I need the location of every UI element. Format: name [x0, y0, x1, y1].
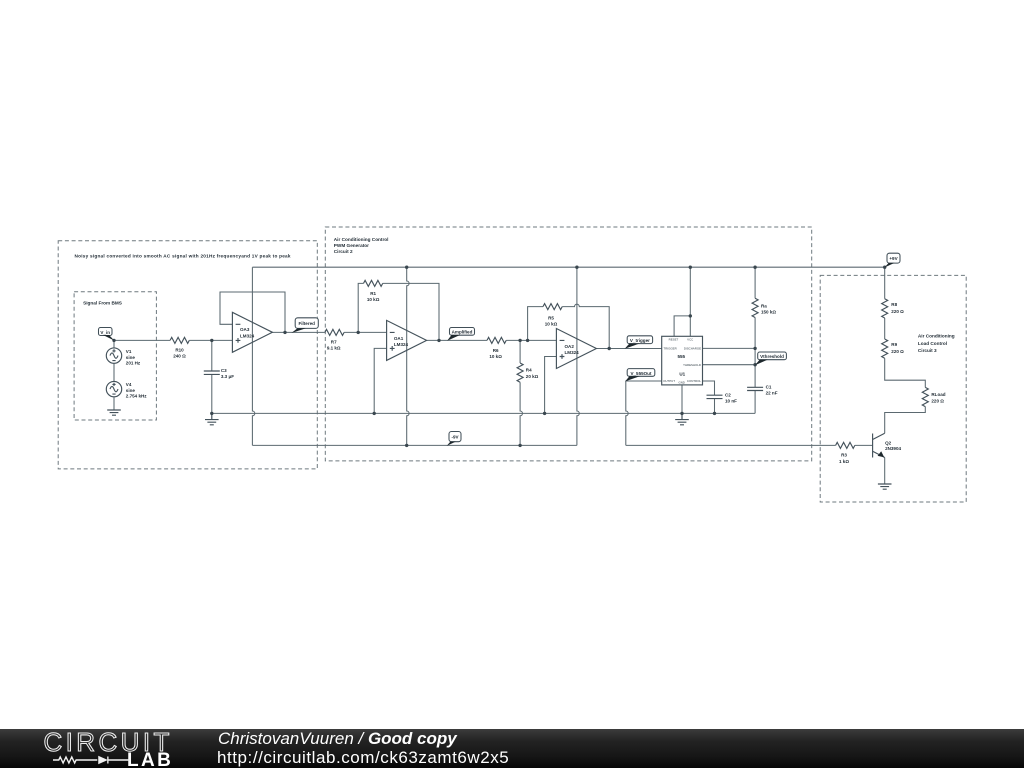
- resistor R9: [882, 339, 904, 358]
- svg-text:C1: C1: [766, 384, 772, 389]
- logo resistor-diode glyph: [53, 755, 130, 765]
- resistor R4: [517, 363, 539, 382]
- ground under 555: [675, 413, 689, 424]
- svg-text:Q2: Q2: [885, 440, 892, 445]
- node label V_trigger: [625, 336, 653, 349]
- node label Amplified: [447, 328, 474, 341]
- ground under Q2: [878, 484, 892, 489]
- svg-text:201 Hz: 201 Hz: [126, 361, 141, 366]
- voltage source V4 sine 2.754 kHz: [106, 381, 147, 398]
- wire OA1 output to R6 to OA2 minus: [427, 339, 557, 341]
- transistor Q2 2N3904: [873, 433, 902, 457]
- wire 555 reset loop: [674, 316, 690, 336]
- svg-text:Circuit 2: Circuit 2: [334, 249, 353, 254]
- svg-text:R3: R3: [841, 453, 847, 458]
- wire +9V drop to R8 R9: [885, 267, 926, 433]
- svg-text:Air Conditioning: Air Conditioning: [918, 334, 955, 339]
- wire 555 control to C2: [703, 381, 715, 395]
- svg-text:VCC: VCC: [687, 337, 693, 341]
- wire 555 output rail to R3 to Q2 base: [626, 444, 873, 446]
- annotation box circuit 1: [58, 241, 317, 469]
- svg-text:220 Ω: 220 Ω: [891, 349, 904, 354]
- wire R1 feedback loop: [358, 283, 439, 340]
- svg-text:R5: R5: [548, 315, 554, 320]
- wire ground rail: [212, 412, 755, 414]
- wire OA3 power rail drop: [252, 267, 254, 445]
- svg-text:V_in: V_in: [100, 330, 110, 335]
- resistor R10: [170, 337, 189, 358]
- svg-text:RLoad: RLoad: [931, 392, 945, 397]
- wire OA3 feedback loop: [220, 292, 285, 332]
- ground under C3: [205, 413, 219, 424]
- ground under V4: [107, 410, 121, 415]
- voltage source V1 sine 201 Hz: [106, 348, 141, 366]
- node label -9V: [447, 432, 461, 446]
- wire source chain V1 V4: [113, 340, 115, 410]
- svg-text:LM324: LM324: [565, 350, 580, 355]
- svg-text:sine: sine: [126, 355, 136, 360]
- wire OA1 plus input to ground rail: [374, 348, 386, 413]
- svg-text:GND: GND: [678, 381, 684, 385]
- wire OA2 plus input to ground rail: [545, 357, 557, 414]
- svg-text:V_trigger: V_trigger: [630, 338, 650, 343]
- node label Vthreshold: [755, 352, 787, 365]
- capacitor C2: [707, 393, 738, 404]
- svg-text:U1: U1: [679, 372, 685, 377]
- svg-text:Air Conditioning Control: Air Conditioning Control: [334, 237, 389, 242]
- svg-text:R10: R10: [175, 348, 184, 353]
- svg-text:+9V: +9V: [889, 256, 897, 261]
- node label +9V: [884, 253, 900, 267]
- wire 555 threshold: [703, 364, 756, 366]
- op-amp OA1 LM324: [387, 320, 427, 360]
- wire +9V top rail: [252, 266, 884, 268]
- svg-text:150 kΩ: 150 kΩ: [761, 310, 776, 315]
- op-amp OA3 LM324: [232, 312, 272, 352]
- wire Ra chain and C1 branch: [754, 267, 756, 413]
- svg-text:3.3 μF: 3.3 μF: [221, 374, 234, 379]
- resistor R7: [325, 329, 344, 350]
- svg-text:R4: R4: [526, 367, 532, 372]
- svg-text:Filtered: Filtered: [298, 321, 315, 326]
- resistor R6: [487, 337, 506, 359]
- svg-text:V4: V4: [126, 382, 132, 387]
- svg-text:R9: R9: [891, 342, 897, 347]
- wire OA3 output to R7 to OA1 minus: [272, 331, 386, 333]
- svg-text:1 kΩ: 1 kΩ: [839, 459, 849, 464]
- resistor R3: [836, 442, 855, 463]
- svg-text:Ra: Ra: [761, 304, 767, 309]
- svg-text:R6: R6: [493, 348, 499, 353]
- wire 555 gnd pin: [681, 385, 683, 414]
- resistor R1: [364, 280, 383, 302]
- svg-text:2N3904: 2N3904: [885, 446, 901, 451]
- wire C2 bottom to ground rail: [714, 399, 716, 414]
- wire OA2 output to 555 trigger: [596, 348, 661, 350]
- svg-text:OA2: OA2: [565, 344, 575, 349]
- svg-text:THRESHOLD: THRESHOLD: [683, 363, 701, 367]
- svg-text:-9V: -9V: [451, 435, 458, 440]
- resistor R5: [543, 304, 562, 327]
- capacitor C1: [747, 384, 778, 395]
- svg-text:240 Ω: 240 Ω: [173, 354, 186, 359]
- svg-text:LM324: LM324: [394, 342, 409, 347]
- svg-text:2.754 kHz: 2.754 kHz: [126, 394, 147, 399]
- svg-text:Amplified: Amplified: [452, 330, 473, 335]
- svg-text:R8: R8: [891, 302, 897, 307]
- resistor RLoad: [922, 387, 945, 406]
- svg-text:Circuit 3: Circuit 3: [918, 348, 937, 353]
- op-amp OA2 LM324: [556, 329, 596, 369]
- svg-text:Signal From BMS: Signal From BMS: [83, 300, 122, 305]
- svg-text:OA1: OA1: [394, 336, 404, 341]
- svg-text:10 kΩ: 10 kΩ: [489, 354, 502, 359]
- junction dots: [112, 266, 886, 448]
- svg-text:DISCHARGE: DISCHARGE: [684, 346, 701, 350]
- svg-text:LM324: LM324: [240, 333, 255, 338]
- node label V_in: [99, 328, 115, 341]
- svg-text:Load Control: Load Control: [918, 341, 947, 346]
- svg-text:RESET: RESET: [669, 337, 679, 341]
- node label V_555Out: [625, 369, 655, 382]
- resistor Ra: [752, 298, 776, 317]
- svg-text:V1: V1: [126, 349, 132, 354]
- svg-text:9.1 kΩ: 9.1 kΩ: [327, 346, 341, 351]
- svg-text:10 nF: 10 nF: [725, 399, 737, 404]
- wire Q2 emitter to ground: [884, 458, 886, 484]
- svg-text:C2: C2: [725, 393, 731, 398]
- wire 555 vcc to top rail: [689, 267, 691, 336]
- svg-text:OA3: OA3: [240, 327, 250, 332]
- svg-text:10 kΩ: 10 kΩ: [367, 297, 380, 302]
- resistor R8: [882, 299, 904, 318]
- svg-text:Noisy signal converted into sm: Noisy signal converted into smooth AC si…: [75, 254, 291, 259]
- svg-text:Vthreshold: Vthreshold: [760, 354, 784, 359]
- wire -9V rail: [252, 444, 577, 446]
- svg-text:R7: R7: [331, 340, 337, 345]
- svg-text:R1: R1: [370, 291, 376, 296]
- svg-text:PWM Generator: PWM Generator: [334, 243, 369, 248]
- wire R5 feedback loop: [528, 304, 610, 348]
- wire C3 branch: [211, 340, 213, 413]
- svg-text:V_555Out: V_555Out: [631, 371, 652, 376]
- svg-text:OUTPUT: OUTPUT: [663, 379, 675, 383]
- svg-text:20 kΩ: 20 kΩ: [526, 374, 539, 379]
- svg-text:22 nF: 22 nF: [766, 390, 778, 395]
- svg-text:CONTROL: CONTROL: [687, 379, 702, 383]
- svg-text:220 Ω: 220 Ω: [931, 398, 944, 403]
- svg-text:TRIGGER: TRIGGER: [664, 346, 677, 350]
- wire R4 branch: [520, 340, 522, 445]
- svg-text:10 kΩ: 10 kΩ: [545, 321, 558, 326]
- annotation box circuit 2: [325, 227, 811, 461]
- svg-text:sine: sine: [126, 388, 136, 393]
- wire 555 output down: [626, 381, 662, 445]
- 555 timer U1: [662, 336, 703, 385]
- wire 555 discharge to Ra: [703, 347, 756, 349]
- svg-text:220 Ω: 220 Ω: [891, 309, 904, 314]
- wire OA2 power drop: [577, 267, 579, 445]
- wire main input V_in to R10 to node to OA3 plus: [114, 339, 232, 341]
- wire OA1 power drop: [407, 267, 409, 445]
- capacitor C3: [204, 368, 234, 379]
- annotation box circuit 3: [820, 275, 966, 502]
- svg-text:555: 555: [678, 354, 686, 359]
- annotation box signal from BMS: [74, 292, 156, 420]
- node label Filtered: [291, 318, 318, 333]
- svg-text:C3: C3: [221, 368, 227, 373]
